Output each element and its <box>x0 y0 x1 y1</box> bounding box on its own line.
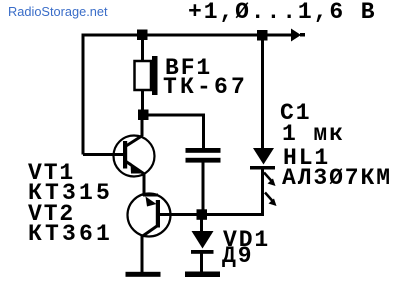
junction: top rail / BF1 <box>137 30 148 41</box>
capacitor C1 <box>186 148 221 163</box>
transistor VT2 (KT361, PNP) <box>128 194 171 237</box>
label КТ361 <box>28 221 113 247</box>
wire: BF1 bottom lead <box>141 90 144 112</box>
power arrow <box>291 29 305 42</box>
junction: BF1 / VT1 collector node <box>138 110 149 121</box>
svg-text:Д9: Д9 <box>222 243 253 269</box>
wire: VT1 base lead <box>83 153 123 156</box>
label VT1 <box>28 160 75 186</box>
diode VD1 <box>191 231 214 254</box>
telephone capsule BF1 <box>135 56 158 95</box>
wire: VD1 bottom lead <box>200 253 203 273</box>
svg-text:АЛ3Ø7КМ: АЛ3Ø7КМ <box>282 165 392 191</box>
wire: collector node to C1 (corner) <box>147 115 204 149</box>
LED emission arrow 1 <box>264 173 276 187</box>
svg-text:КТ361: КТ361 <box>28 221 113 247</box>
label Д9 <box>222 243 253 269</box>
label ТК-67 <box>163 74 248 100</box>
svg-text:RadioStorage.net: RadioStorage.net <box>8 4 108 19</box>
wire: HL1 bottom lead (corner to base wire) <box>260 169 263 215</box>
junction: VT2 base node <box>197 209 208 220</box>
wire: HL1 top lead <box>261 38 264 149</box>
label HL1 <box>283 145 330 171</box>
label VT2 <box>28 201 75 227</box>
wire: left rail (vertical) <box>82 35 85 155</box>
transistor VT1 (KT315, NPN) <box>114 136 155 177</box>
label 1 мк <box>282 121 345 147</box>
wire: C1 bottom lead <box>202 162 205 211</box>
label BF1 <box>165 55 212 81</box>
wire: VD1 top lead <box>200 219 203 232</box>
watermark RadioStorage.net <box>8 4 108 19</box>
wire: VT1 emitter to VT2 emitter <box>143 173 146 196</box>
label АЛ307КМ <box>282 165 392 191</box>
svg-text:+1,Ø...1,6 В: +1,Ø...1,6 В <box>188 0 376 25</box>
wire: VT1 collector lead <box>141 118 144 136</box>
wire: VT2 base lead <box>159 213 264 216</box>
LED HL1 <box>250 148 275 170</box>
wire: BF1 top lead <box>141 38 144 62</box>
label VD1 <box>223 227 270 253</box>
svg-text:1 мк: 1 мк <box>282 121 345 147</box>
ground: VD1 <box>185 272 220 278</box>
label C1 <box>280 100 311 126</box>
LED emission arrow 2 <box>265 193 277 207</box>
svg-text:ТК-67: ТК-67 <box>163 74 248 100</box>
wire: VT2 collector to ground <box>141 235 144 273</box>
wire: top rail (horizontal) <box>82 34 293 37</box>
junction: top rail / HL1 <box>257 30 268 41</box>
supply label +1,0...1,6 В <box>188 0 376 25</box>
ground: VT2 <box>126 272 161 277</box>
label КТ315 <box>28 180 113 206</box>
